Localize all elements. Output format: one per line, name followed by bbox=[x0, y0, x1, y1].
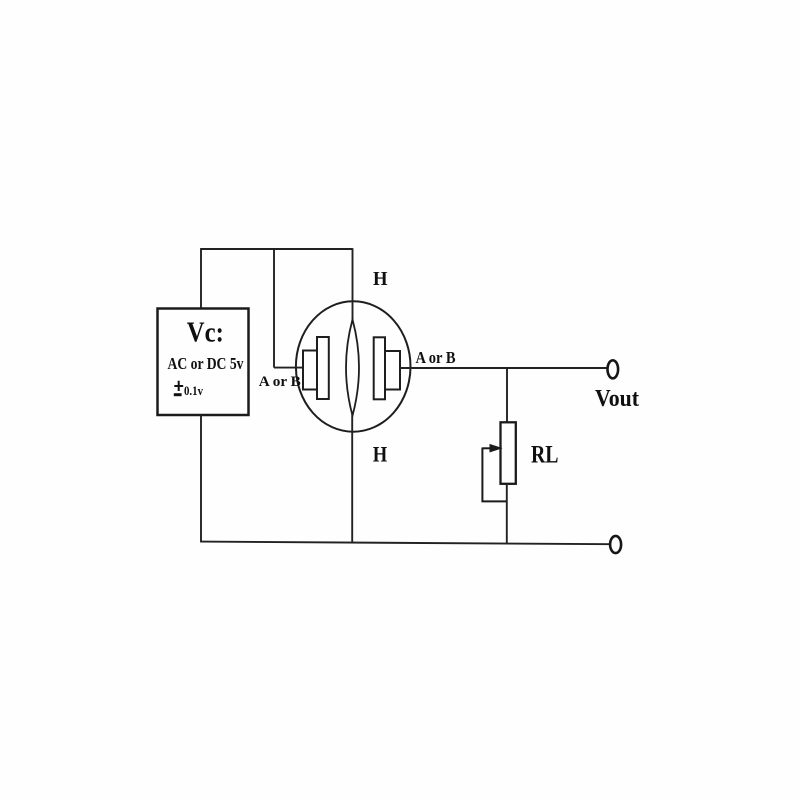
wire: top horizontal bus bbox=[201, 248, 353, 250]
electrode right (inner plate) bbox=[374, 337, 385, 399]
wire: RL top lead from junction bbox=[506, 368, 508, 423]
wire: Vc top lead (left vertical) bbox=[200, 248, 202, 309]
wire: bottom horizontal bus bbox=[200, 542, 611, 545]
sensor envelope (circle) bbox=[296, 301, 411, 431]
svg-text:H: H bbox=[373, 442, 388, 467]
terminal Vout (top output circle) bbox=[608, 360, 619, 378]
wire: branch to left electrode (horizontal) bbox=[274, 367, 304, 369]
terminal bottom (return circle) bbox=[610, 536, 621, 553]
svg-text:Vc:: Vc: bbox=[187, 318, 224, 349]
wire: branch to left electrode (vertical from top bus) bbox=[273, 248, 275, 367]
resistor RL body bbox=[501, 422, 516, 484]
svg-text:AC or DC 5v: AC or DC 5v bbox=[168, 354, 245, 373]
svg-text:A or B: A or B bbox=[259, 374, 301, 390]
svg-text:0.1v: 0.1v bbox=[184, 384, 204, 398]
pin H bottom lead bbox=[351, 415, 353, 543]
svg-text:RL: RL bbox=[531, 440, 559, 469]
wire: output (A or B) to Vout terminal bbox=[400, 367, 608, 369]
RL wiper arrowhead bbox=[490, 444, 503, 453]
pin H top lead bbox=[352, 248, 354, 321]
label plus-minus 0.1v : plus sign bbox=[174, 381, 183, 391]
electrode left (inner plate) bbox=[317, 337, 329, 399]
label plus-minus 0.1v : bottom bar bbox=[174, 393, 182, 396]
wire: RL bottom lead bbox=[506, 484, 508, 544]
RL wiper arrow shaft bbox=[482, 447, 491, 449]
electrode left (outer tab) bbox=[303, 351, 317, 390]
wire: Vc bottom lead bbox=[200, 415, 202, 542]
svg-text:H: H bbox=[373, 268, 388, 290]
voltage source Vc box bbox=[158, 309, 249, 416]
heater element (lens) bbox=[346, 320, 359, 416]
svg-text:Vout: Vout bbox=[595, 385, 640, 412]
electrode right (outer tab) bbox=[385, 351, 400, 390]
svg-text:A or B: A or B bbox=[416, 348, 456, 367]
RL wiper return lead (down and right) bbox=[482, 448, 506, 502]
